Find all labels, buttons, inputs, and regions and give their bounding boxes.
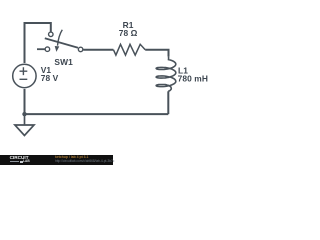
wire switch C to resistor bbox=[83, 49, 113, 51]
voltage source V1 bbox=[13, 64, 36, 87]
switch blade bbox=[45, 38, 78, 48]
resistor R1 bbox=[113, 44, 145, 55]
wire V1 bottom to junction bbox=[24, 89, 26, 114]
switch actuation arrow bbox=[58, 30, 63, 46]
svg-text:SW1: SW1 bbox=[54, 57, 73, 67]
svg-text:78 V: 78 V bbox=[41, 73, 59, 83]
watermark logo CIRCUIT bbox=[10, 156, 29, 161]
watermark logo block bbox=[20, 161, 23, 164]
junction node bbox=[22, 112, 26, 116]
watermark logo dashes bbox=[10, 160, 19, 163]
wire inductor bottom to bottom rail bbox=[167, 91, 169, 114]
watermark credit line bbox=[55, 155, 88, 159]
watermark logo LAB bbox=[23, 160, 30, 163]
svg-text:78 Ω: 78 Ω bbox=[119, 28, 138, 38]
wire bottom rail bbox=[25, 113, 169, 115]
svg-text:780 mH: 780 mH bbox=[178, 74, 208, 84]
V1 plus sign bbox=[20, 67, 28, 75]
watermark url line bbox=[55, 159, 114, 163]
terminal circle A bbox=[49, 32, 54, 37]
watermark bar bbox=[0, 155, 113, 165]
switch SW1 bbox=[37, 30, 83, 52]
terminal circle C bbox=[78, 47, 83, 52]
terminal stub B bbox=[37, 48, 45, 50]
ground bbox=[15, 114, 34, 135]
inductor L1 coil bbox=[156, 57, 176, 92]
V1 minus sign bbox=[20, 78, 28, 80]
wire V1 top to corner bbox=[25, 23, 51, 63]
terminal circle B bbox=[45, 47, 50, 52]
wire resistor to inductor corner bbox=[145, 50, 168, 57]
